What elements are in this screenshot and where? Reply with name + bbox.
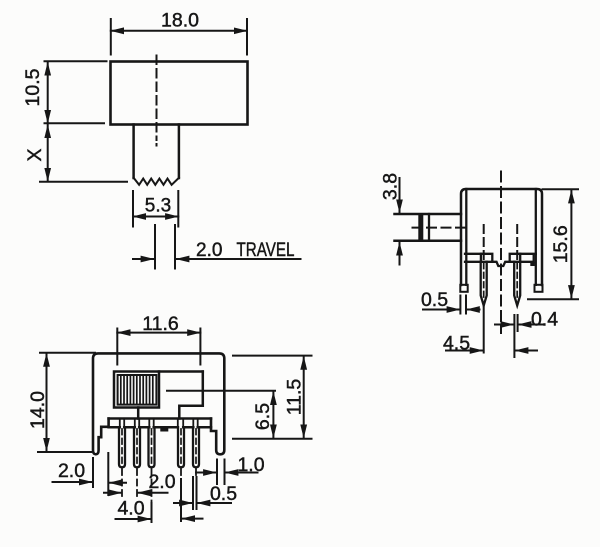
front view: pin 2 dashed inner (136, 429, 138, 465)
dimension X line with arrows (47, 125, 49, 181)
side view: right pin shoulder (510, 254, 521, 262)
side view: left mounting foot (460, 285, 467, 292)
dimension 4.5 left arrow (446, 350, 483, 352)
front view: terminal base segments (109, 426, 211, 429)
side view: left pin (481, 262, 487, 306)
side view: body bottom edge right (520, 254, 536, 262)
side view: left pin center extension below (483, 306, 485, 353)
side view: body outer outline (461, 189, 542, 285)
svg-text:0.4: 0.4 (531, 309, 558, 331)
dimension 5.3 line with arrows (133, 216, 178, 218)
front view: cavity right edge and step (179, 372, 203, 419)
dimension 1.0 left arrow (196, 472, 216, 474)
front view: pin 5 dashed inner (195, 429, 197, 465)
front view: pin 5 (193, 427, 199, 467)
side view: knob centerline (dashed) (413, 227, 470, 229)
dimension 0.4 left arrow (495, 324, 514, 326)
dimension 11.6 line with arrows (117, 332, 200, 334)
side view: right pin centerline above (dashed) (516, 225, 518, 260)
front view: body outline with legs (93, 353, 224, 454)
front view: cavity top edge (159, 370, 203, 373)
dimension 3.8 lower arrow (399, 242, 401, 264)
dimension 18.0 line with arrows (111, 30, 247, 32)
dimension 4.0 left arrow (116, 518, 151, 520)
front view: pin 2 (134, 427, 140, 467)
dimension 2.0 (left) left arrow (53, 481, 93, 483)
dimension 15.6 line with arrows (570, 190, 572, 298)
front view: pin 4 centerline below (dashed+solid) (180, 469, 182, 479)
front view: slider line extension (6.5 reference) (167, 390, 275, 392)
dimension 2.0 (left) right arrow (109, 482, 126, 484)
dimension 2.0 (left) extension ticks (93, 453, 108, 495)
svg-text:TRAVEL: TRAVEL (237, 240, 295, 261)
front view: knob outer frame (114, 372, 159, 408)
travel right arrow (176, 258, 300, 260)
side view: bottom edge with center notch (492, 262, 509, 266)
travel reference marks (155, 225, 175, 269)
svg-text:15.6: 15.6 (550, 225, 572, 263)
dimension 2.0 (pitch) left arrow (104, 492, 121, 494)
top view: slider knob sides (134, 125, 179, 179)
front view: knob inner frame (118, 375, 157, 405)
front view: pin 5 centerline below (dashed) (195, 469, 197, 477)
front view: base slot edges (120, 419, 198, 428)
top view: switch body outline (111, 62, 248, 125)
dimension 1.0 extension ticks (217, 460, 225, 485)
svg-text:4.0: 4.0 (117, 498, 144, 520)
front view: pin 3 (149, 427, 155, 467)
front view: pin 1 dashed inner (121, 429, 123, 465)
svg-text:6.5: 6.5 (252, 403, 274, 430)
svg-text:11.5: 11.5 (284, 379, 306, 416)
side view: latch mark (filled) (530, 262, 535, 266)
top view: knob centerline (dashed) (156, 56, 158, 141)
front view: pin 3 dashed inner (151, 429, 153, 465)
side view: knob face line (428, 214, 430, 241)
side view: knob end cap (filled) (418, 214, 423, 241)
front view: pin 1 centerline below (dashed) (121, 469, 123, 497)
side view: right pin edge extensions below (514, 315, 517, 357)
side view: left wall inner line (465, 189, 467, 285)
svg-text:5.3: 5.3 (145, 196, 171, 217)
front view: pin 4 (178, 427, 184, 467)
dimension 10.5 extension lines (45, 61, 107, 123)
front view: knob serration hatch (121, 375, 153, 405)
side view: right pin (514, 262, 520, 306)
dimension 0.5 (side) extension ticks (460, 296, 466, 314)
front view: housing bottom edge (109, 417, 211, 420)
top view: knob break-line zigzag (134, 178, 179, 185)
svg-text:1.0: 1.0 (237, 454, 264, 476)
svg-text:18.0: 18.0 (161, 10, 199, 32)
side view: body bottom edge left (465, 254, 481, 262)
dimension 1.0 right arrow (225, 472, 257, 474)
dimension 11.5 extension lines (233, 356, 312, 439)
dimension 15.6 extension lines (528, 189, 578, 299)
side view: left pin centerline above (dashed) (483, 225, 485, 260)
svg-text:2.0: 2.0 (196, 240, 222, 261)
dimension 0.5 (side) left arrow (423, 309, 460, 311)
dimension 3.8 upper arrow (399, 178, 401, 213)
front view: slider stem (137, 408, 140, 419)
svg-text:0.5: 0.5 (210, 483, 237, 505)
dimension 0.4 right arrow (518, 324, 543, 326)
front view: pin 2 centerline below (dashed) (136, 469, 138, 497)
dimension 11.6 extension lines (117, 329, 200, 365)
dimension 11.5 line with arrows (303, 357, 305, 438)
svg-text:2.0: 2.0 (58, 460, 85, 482)
side view: main centerline (dashed) (500, 172, 502, 334)
front view: pin 4 dashed inner (180, 429, 182, 465)
dimension 2.0 (pitch) right arrow (138, 492, 168, 494)
side view: right mounting foot (535, 285, 543, 292)
front view: pin 3 centerline below (dashed+solid) (151, 469, 153, 503)
dimension 14.0 extension lines (38, 353, 95, 452)
side view: left pin inner dashed line (483, 263, 485, 301)
side view: right wall inner line (535, 189, 537, 285)
dimension 18.0 extension lines (111, 19, 247, 55)
dimension 10.5 line with arrows (47, 63, 49, 124)
travel left arrow (133, 258, 154, 260)
svg-text:10.5: 10.5 (22, 68, 44, 106)
front view: pin 5 edge ticks (193, 477, 197, 509)
dimension 0.5 (front) right arrow (197, 502, 231, 504)
dimension 14.0 line with arrows (46, 354, 48, 451)
svg-text:4.5: 4.5 (443, 333, 470, 355)
side view: left pin shoulder (481, 254, 492, 262)
dimension 4.0 right arrow (182, 518, 203, 520)
side view: right pin inner dashed line (516, 263, 518, 301)
svg-text:3.8: 3.8 (380, 173, 402, 200)
svg-text:11.6: 11.6 (142, 313, 179, 335)
dimension X bottom extension line (40, 181, 127, 183)
front view: keying tab (filled) (160, 427, 168, 431)
dimension 6.5 line with arrows (272, 392, 274, 438)
dimension 0.5 (front) left arrow (174, 502, 192, 504)
svg-text:14.0: 14.0 (27, 391, 49, 429)
svg-text:2.0: 2.0 (148, 471, 175, 493)
front view: pin 1 (119, 427, 125, 467)
svg-text:0.5: 0.5 (421, 289, 448, 311)
svg-text:X: X (24, 148, 46, 161)
dimension 0.5 (side) right arrow (467, 309, 480, 311)
side view: knob top and bottom lines (with 3.8 extensions) (395, 214, 462, 241)
dimension 5.3 extension lines (133, 191, 178, 227)
dimension 4.5 right arrow (515, 350, 537, 352)
